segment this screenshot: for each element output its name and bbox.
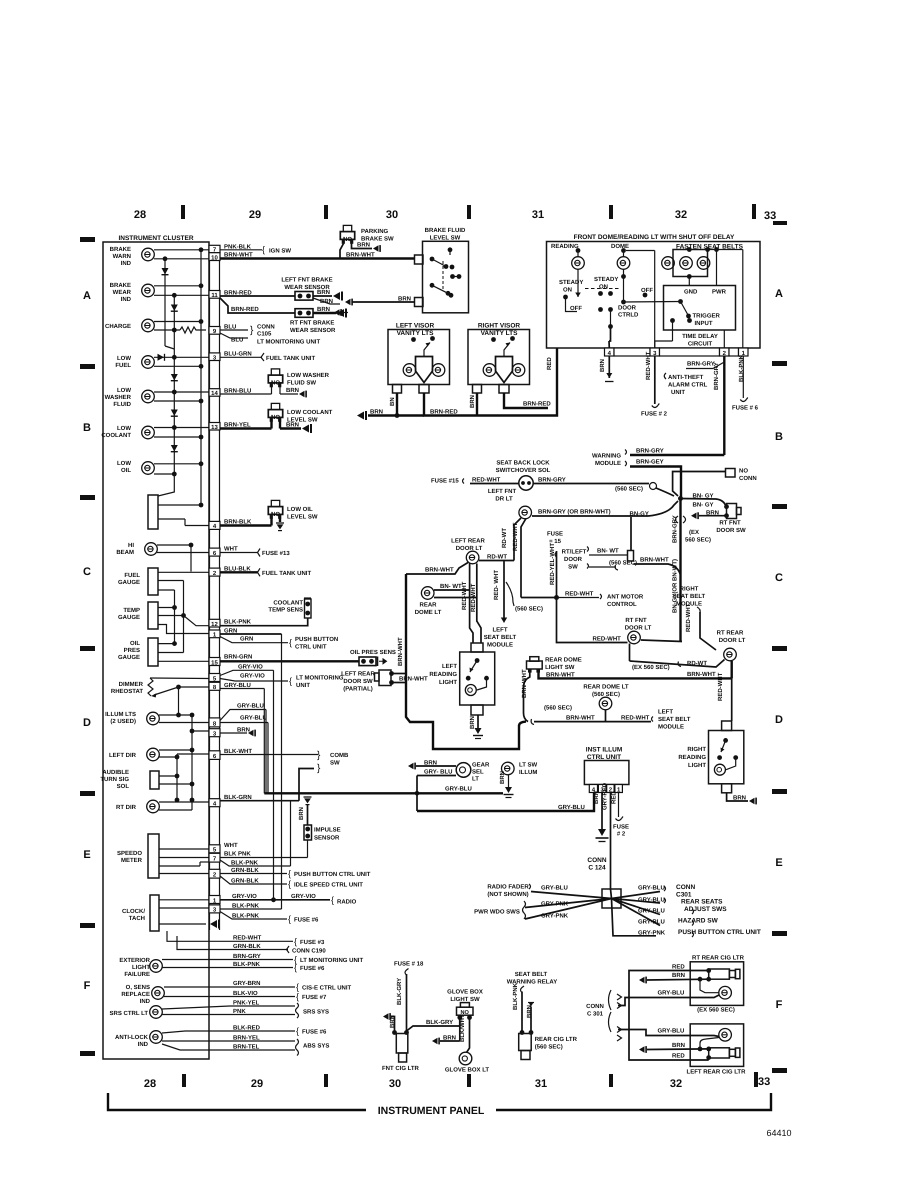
svg-text:PUSH BUTTON CTRL UNIT: PUSH BUTTON CTRL UNIT <box>678 929 761 936</box>
svg-text:29: 29 <box>249 209 261 221</box>
svg-text:(NOT SHOWN): (NOT SHOWN) <box>487 891 528 898</box>
svg-text:BLK-RED: BLK-RED <box>233 1024 261 1031</box>
svg-text:ANTI-THEFT: ANTI-THEFT <box>668 374 704 381</box>
BRN-GRY vertical down <box>679 499 681 642</box>
svg-text:PRES: PRES <box>124 647 140 654</box>
svg-text:REPLACE: REPLACE <box>121 991 150 998</box>
ant motor control <box>600 594 602 599</box>
svg-text:UNIT: UNIT <box>296 682 310 689</box>
svg-text:SEAT BELT: SEAT BELT <box>658 716 691 723</box>
cig lighter symbol <box>709 969 730 979</box>
svg-text:FUSE #6: FUSE #6 <box>300 965 325 972</box>
svg-text:C: C <box>775 572 783 584</box>
switch dots and lines <box>577 269 579 297</box>
svg-text:BRN: BRN <box>469 395 476 408</box>
svg-text:SPEEDO: SPEEDO <box>117 850 142 857</box>
svg-text:RT FNT: RT FNT <box>625 617 647 624</box>
svg-text:FUSE #6: FUSE #6 <box>302 1029 327 1036</box>
svg-text:GRN-BLK: GRN-BLK <box>233 943 261 950</box>
svg-text:(PARTIAL): (PARTIAL) <box>343 686 373 693</box>
pin 8 lower <box>209 718 220 727</box>
svg-text:BRN-TEL: BRN-TEL <box>233 1043 260 1050</box>
svg-text:{: { <box>288 869 291 879</box>
svg-text:RED: RED <box>672 964 685 971</box>
svg-text:BRN-GRN: BRN-GRN <box>224 654 252 661</box>
svg-text:PNK: PNK <box>233 1008 246 1015</box>
svg-text:GRY-BLU: GRY-BLU <box>541 885 568 892</box>
svg-text:SRS CTRL LT: SRS CTRL LT <box>110 1010 149 1017</box>
svg-text:RADIO FADER: RADIO FADER <box>487 884 529 891</box>
svg-text:IGN SW: IGN SW <box>269 248 291 255</box>
rear dome light sw <box>530 657 539 662</box>
svg-text:GRY-BLU: GRY-BLU <box>240 715 267 722</box>
svg-text:DOOR SW: DOOR SW <box>343 678 373 685</box>
long left vertical brn-wht <box>406 574 526 749</box>
svg-text:RED: RED <box>672 1053 685 1060</box>
svg-text:IDLE SPEED CTRL UNIT: IDLE SPEED CTRL UNIT <box>294 882 363 889</box>
svg-text:{: { <box>288 914 291 924</box>
svg-text:LEFT: LEFT <box>493 627 508 634</box>
svg-text:ILLUM: ILLUM <box>519 769 537 776</box>
svg-text:RIGHT VISOR: RIGHT VISOR <box>478 323 521 330</box>
pin 2 lower <box>209 869 220 878</box>
pin 6 lower <box>209 751 220 760</box>
svg-text:SEAT BACK LOCK: SEAT BACK LOCK <box>496 460 550 467</box>
svg-text:{: { <box>331 895 334 905</box>
lamp SRS CTRL LT <box>150 1006 163 1019</box>
svg-text:SEAT BELT: SEAT BELT <box>515 971 548 978</box>
svg-text:METER: METER <box>121 857 143 864</box>
svg-text:CTRL UNIT: CTRL UNIT <box>295 644 327 651</box>
svg-text:E: E <box>775 857 782 869</box>
gauge TEMP GAUGE <box>148 602 158 629</box>
svg-text:BRN-GRY: BRN-GRY <box>538 477 566 484</box>
svg-text:GRY-BLU: GRY-BLU <box>638 908 665 915</box>
svg-text:SEAT BELT: SEAT BELT <box>484 634 517 641</box>
svg-text:GRY-VIO: GRY-VIO <box>240 673 265 680</box>
cluster outline <box>103 242 209 1059</box>
RT FNT BRAKE WEAR SENSOR <box>295 309 313 318</box>
svg-text:CONN: CONN <box>257 324 275 331</box>
svg-text:DOME: DOME <box>611 243 629 250</box>
svg-text:RD-WT: RD-WT <box>487 554 507 561</box>
x crossing wires <box>531 892 660 926</box>
svg-text:31: 31 <box>535 1078 547 1090</box>
svg-text:LEFT REAR: LEFT REAR <box>451 538 485 545</box>
svg-text:WHT: WHT <box>224 842 238 849</box>
svg-text:REAR CIG LTR: REAR CIG LTR <box>535 1036 578 1043</box>
svg-text:BN: BN <box>389 397 396 406</box>
lamp ANTI-LOCK IND <box>150 1031 163 1044</box>
svg-text:READING: READING <box>678 754 706 761</box>
svg-text:RT/LEFT: RT/LEFT <box>562 549 587 556</box>
svg-text:RED: RED <box>611 791 618 804</box>
svg-text:LEFT VISOR: LEFT VISOR <box>396 323 435 330</box>
svg-text:WARN: WARN <box>113 253 131 260</box>
red-wht wire into it <box>630 660 725 668</box>
svg-text:11: 11 <box>211 292 218 299</box>
svg-text:LEFT REAR CIG LTR: LEFT REAR CIG LTR <box>687 1069 747 1076</box>
pin 6 <box>209 548 220 556</box>
svg-text:(560 SEC): (560 SEC) <box>609 560 637 567</box>
svg-text:LIGHT SW: LIGHT SW <box>545 664 575 671</box>
tick <box>181 205 185 219</box>
svg-text:CONTROL: CONTROL <box>607 601 637 608</box>
svg-text:B: B <box>775 431 783 443</box>
svg-text:CIS-E CTRL UNIT: CIS-E CTRL UNIT <box>302 985 352 992</box>
svg-text:LEVEL SW: LEVEL SW <box>430 235 461 242</box>
svg-text:GLOVE BOX: GLOVE BOX <box>447 989 483 996</box>
svg-text:BN- GY: BN- GY <box>693 502 714 509</box>
svg-text:BRN: BRN <box>526 1005 533 1018</box>
svg-text:RED-YEL-WHT: RED-YEL-WHT <box>549 543 556 585</box>
svg-text:BLK-PNK: BLK-PNK <box>233 961 261 968</box>
svg-text:HI: HI <box>128 542 134 549</box>
svg-text:FNT CIG LTR: FNT CIG LTR <box>382 1065 420 1072</box>
ground arrow at clock <box>210 920 220 929</box>
svg-text:(560 SEC): (560 SEC) <box>535 1044 563 1051</box>
svg-text:BRN-WHT: BRN-WHT <box>399 676 428 683</box>
bus V174 with diodes <box>173 295 175 474</box>
svg-text:BRN-GRY (OR BRN-WHT): BRN-GRY (OR BRN-WHT) <box>538 509 611 516</box>
gauge FUEL GAUGE <box>148 568 158 595</box>
svg-text:BRN-GRY: BRN-GRY <box>687 361 715 368</box>
svg-text:TACH: TACH <box>129 915 145 922</box>
svg-text:SOL: SOL <box>117 783 130 790</box>
svg-text:BRN: BRN <box>499 771 506 784</box>
svg-text:CONN C190: CONN C190 <box>292 948 326 955</box>
svg-text:CONN: CONN <box>587 857 606 864</box>
resistor charge <box>180 327 206 333</box>
svg-text:RT REAR: RT REAR <box>717 630 744 637</box>
svg-text:DOOR: DOOR <box>618 305 637 312</box>
lamp LOW OIL <box>142 462 155 475</box>
svg-text:12: 12 <box>211 621 218 628</box>
right top corner dash <box>773 221 787 225</box>
svg-text:UNIT: UNIT <box>671 389 685 396</box>
svg-text:GEAR: GEAR <box>472 762 490 769</box>
pin 3 lower <box>209 729 220 737</box>
svg-text:WASHER: WASHER <box>105 394 132 401</box>
svg-text:WARNING: WARNING <box>592 453 621 460</box>
svg-text:BRN: BRN <box>593 791 600 804</box>
left rear cig ltr box <box>690 1024 743 1067</box>
svg-text:RED-WHT: RED-WHT <box>593 636 622 643</box>
LOW COOLANT LEVEL SW <box>268 403 282 421</box>
svg-text:BLK-PNK: BLK-PNK <box>738 354 745 382</box>
svg-text:RIGHT: RIGHT <box>680 586 699 593</box>
pin 9 <box>209 327 220 335</box>
rt rear door lt feeds down <box>731 678 733 721</box>
svg-text:OFF: OFF <box>641 287 653 294</box>
tick <box>609 205 613 219</box>
svg-text:RED: RED <box>546 357 553 370</box>
tick <box>324 205 328 219</box>
svg-text:CTRLD: CTRLD <box>618 312 639 319</box>
svg-text:GRY-VIO: GRY-VIO <box>291 893 316 900</box>
svg-text:(EX 560 SEC): (EX 560 SEC) <box>697 1007 735 1014</box>
svg-text:ABS SYS: ABS SYS <box>303 1043 329 1050</box>
svg-text:D: D <box>775 714 783 726</box>
svg-text:LEFT DIR: LEFT DIR <box>109 752 137 759</box>
svg-text:BRN-GRY: BRN-GRY <box>672 515 679 543</box>
tick <box>324 1074 328 1087</box>
svg-text:SW: SW <box>330 760 340 767</box>
svg-text:WEAR SENSOR: WEAR SENSOR <box>290 327 336 334</box>
tick <box>754 1072 758 1087</box>
svg-text:RED-WHT: RED-WHT <box>233 935 262 942</box>
connector arrow lower left <box>334 309 342 316</box>
gauge OIL PRES GAUGE <box>148 638 158 666</box>
svg-text:HAZARD SW: HAZARD SW <box>678 918 719 925</box>
svg-text:RT REAR CIG LTR: RT REAR CIG LTR <box>692 955 745 962</box>
lt sw illum <box>502 762 515 775</box>
pin 14 <box>209 389 220 397</box>
fnt cig ltr body <box>396 1034 408 1054</box>
svg-text:BRN: BRN <box>317 306 330 313</box>
svg-text:FAILURE: FAILURE <box>124 971 150 978</box>
lamp HI BEAM <box>145 543 158 556</box>
svg-text:RED-WHT: RED-WHT <box>621 715 650 722</box>
svg-text:{: { <box>296 1026 299 1036</box>
no conn <box>726 469 736 478</box>
svg-text:{: { <box>296 982 299 992</box>
rear cig ltr <box>519 1034 532 1051</box>
pin 3 <box>209 353 220 361</box>
pin 4 <box>209 521 220 529</box>
svg-text:RT FNT BRAKE: RT FNT BRAKE <box>290 320 334 327</box>
pin 2 <box>209 568 220 576</box>
svg-text:FUEL: FUEL <box>124 572 140 579</box>
svg-text:{: { <box>262 245 265 255</box>
svg-text:GRY-PNK: GRY-PNK <box>638 930 666 937</box>
svg-text:DOOR LT: DOOR LT <box>719 637 746 644</box>
lamp RT DIR <box>147 800 160 813</box>
svg-text:PUSH BUTTON CTRL UNIT: PUSH BUTTON CTRL UNIT <box>294 871 371 878</box>
svg-text:GRY-BLU: GRY-BLU <box>638 919 665 926</box>
svg-text:FUEL: FUEL <box>115 362 131 369</box>
pin 1 lower <box>209 896 220 904</box>
svg-text:F: F <box>776 999 783 1011</box>
svg-text:LEFT: LEFT <box>658 709 673 716</box>
svg-text:REAR: REAR <box>419 602 437 609</box>
svg-text:SWITCHOVER SOL: SWITCHOVER SOL <box>496 467 551 474</box>
svg-text:BRN: BRN <box>320 298 333 305</box>
svg-text:GLOVE BOX LT: GLOVE BOX LT <box>445 1067 490 1074</box>
left seat belt module (row C) <box>503 561 505 619</box>
dimmer feed to pin 5 <box>150 677 209 680</box>
svg-text:32: 32 <box>675 209 687 221</box>
svg-text:C301: C301 <box>676 892 692 899</box>
svg-text:RED-WHT: RED-WHT <box>472 477 501 484</box>
gear sel lt <box>408 763 416 770</box>
svg-text:GRY-BLU: GRY-BLU <box>445 786 472 793</box>
svg-text:PNK-YEL: PNK-YEL <box>233 999 260 1006</box>
svg-text:LIGHT: LIGHT <box>688 762 706 769</box>
diode right on low fuel wire <box>154 356 209 358</box>
svg-text:GRY-RED: GRY-RED <box>602 782 609 810</box>
svg-text:LIGHT: LIGHT <box>132 964 150 971</box>
gauge CLOCK/TACH <box>150 895 159 931</box>
svg-text:STEADY: STEADY <box>559 279 583 286</box>
svg-text:LOW OIL: LOW OIL <box>287 506 313 513</box>
svg-text:GRY-VIO: GRY-VIO <box>238 664 263 671</box>
svg-text:WEAR: WEAR <box>113 289 132 296</box>
svg-text:GRY-PNK: GRY-PNK <box>541 901 569 908</box>
svg-text:C105: C105 <box>257 331 272 338</box>
svg-text:GRY- BLU: GRY- BLU <box>424 769 452 776</box>
svg-text:33: 33 <box>764 210 776 222</box>
svg-text:BRN: BRN <box>317 289 330 296</box>
internal contacts <box>430 257 435 262</box>
svg-text:RADIO: RADIO <box>337 899 357 906</box>
svg-text:REAR DOME LT: REAR DOME LT <box>583 684 629 691</box>
pin 10 <box>209 253 220 261</box>
bundle verticals <box>263 689 265 794</box>
svg-text:GRN: GRN <box>240 636 253 643</box>
connector rail <box>209 245 211 930</box>
svg-text:LEVEL SW: LEVEL SW <box>287 417 318 424</box>
svg-text:BEAM: BEAM <box>116 549 134 556</box>
lamp LEFT DIR <box>147 748 160 761</box>
wires inside box bottom <box>608 341 610 348</box>
svg-text:REAR DOME: REAR DOME <box>545 657 582 664</box>
svg-text:MODULE: MODULE <box>595 460 621 467</box>
pin 8 <box>209 682 220 690</box>
lamp ILLUM LTS (2 USED) <box>147 712 160 725</box>
svg-text:29: 29 <box>251 1078 263 1090</box>
svg-text:DOOR: DOOR <box>564 556 583 563</box>
svg-text:BN- WT: BN- WT <box>597 548 619 555</box>
pin strip under box <box>605 348 749 356</box>
svg-text:IND: IND <box>138 1041 149 1048</box>
svg-text:13: 13 <box>211 424 218 431</box>
bus V201 <box>200 250 202 505</box>
svg-text:ON: ON <box>563 287 572 294</box>
svg-text:BLU-GRN: BLU-GRN <box>224 351 252 358</box>
svg-text:BRN: BRN <box>672 972 685 979</box>
svg-text:SEAT BELT: SEAT BELT <box>673 593 706 600</box>
svg-text:B: B <box>83 422 91 434</box>
svg-text:{: { <box>294 963 297 973</box>
dashed steady-on line <box>585 288 620 290</box>
svg-text:LOW: LOW <box>117 460 131 467</box>
svg-text:PUSH BUTTON: PUSH BUTTON <box>295 636 338 643</box>
svg-text:LT MONITORING UNIT: LT MONITORING UNIT <box>257 339 320 346</box>
svg-text:IND: IND <box>121 260 132 267</box>
svg-text:FUSE: FUSE <box>547 531 563 538</box>
svg-text:RED-WHT: RED-WHT <box>461 581 468 610</box>
svg-text:(560 SEC): (560 SEC) <box>544 705 572 712</box>
svg-text:C 124: C 124 <box>588 865 606 872</box>
svg-text:INSTRUMENT CLUSTER: INSTRUMENT CLUSTER <box>118 235 193 242</box>
svg-text:IND: IND <box>121 296 132 303</box>
svg-text:LOW: LOW <box>117 355 131 362</box>
svg-text:LT MONITORING: LT MONITORING <box>296 675 344 682</box>
svg-text:READING: READING <box>551 243 579 250</box>
svg-text:DOOR LT: DOOR LT <box>456 545 483 552</box>
lamp circles <box>403 364 416 377</box>
svg-text:FUSE # 6: FUSE # 6 <box>732 405 759 412</box>
svg-text:OIL: OIL <box>130 640 140 647</box>
svg-text:COOLANT: COOLANT <box>101 432 131 439</box>
svg-text:LEFT FNT: LEFT FNT <box>488 488 517 495</box>
left reading light box <box>460 652 495 705</box>
svg-text:TURN SIG: TURN SIG <box>100 776 129 783</box>
svg-text:33: 33 <box>758 1076 770 1088</box>
svg-text:A: A <box>775 288 783 300</box>
svg-text:SENSOR: SENSOR <box>314 835 340 842</box>
pin 7 lower <box>209 853 220 862</box>
svg-text:BRN-GEY: BRN-GEY <box>636 459 664 466</box>
svg-text:SEL: SEL <box>472 769 484 776</box>
seat belt lamps box <box>673 250 708 277</box>
svg-text:BLK-PNK: BLK-PNK <box>224 619 252 626</box>
svg-text:STEADY: STEADY <box>594 276 618 283</box>
svg-text:IMPULSE: IMPULSE <box>314 827 341 834</box>
tick <box>182 1074 186 1087</box>
time delay circuit box <box>664 286 736 331</box>
bottom bracket with INSTRUMENT PANEL label <box>108 1093 366 1110</box>
svg-text:EXTERIOR: EXTERIOR <box>119 957 150 964</box>
svg-text:PWR WDO SWS: PWR WDO SWS <box>474 909 520 916</box>
svg-text:GRN-BLK: GRN-BLK <box>231 877 259 884</box>
tick <box>467 205 471 219</box>
svg-text:FRONT DOME/READING LT WITH SHU: FRONT DOME/READING LT WITH SHUT OFF DELA… <box>574 234 735 241</box>
svg-text:FUSE #7: FUSE #7 <box>302 994 327 1001</box>
svg-text:BRN-WHT: BRN-WHT <box>521 669 528 698</box>
svg-text:BLK-WHT: BLK-WHT <box>224 748 252 755</box>
svg-text:DIMMER: DIMMER <box>119 681 144 688</box>
vertical routing wires gauges to pins <box>183 581 185 653</box>
svg-text:DOOR LT: DOOR LT <box>625 625 652 632</box>
gauge SPEEDO METER <box>148 834 159 878</box>
bus V165 with diode <box>164 259 166 346</box>
internal drop wires <box>610 310 612 327</box>
svg-text:RED- WHT: RED- WHT <box>493 570 500 600</box>
svg-text:INPUT: INPUT <box>695 320 713 327</box>
pin 1 <box>209 630 220 638</box>
svg-text:# 2: # 2 <box>617 831 626 838</box>
svg-text:BLK-GRY: BLK-GRY <box>396 978 403 1005</box>
svg-text:CONN: CONN <box>586 1003 604 1010</box>
svg-text:BRN: BRN <box>286 387 299 394</box>
svg-text:GRY-BLU: GRY-BLU <box>638 885 665 892</box>
svg-text:BRN-WHT: BRN-WHT <box>687 671 716 678</box>
bottom tabs <box>393 385 402 394</box>
pin 7 <box>209 245 220 252</box>
svg-text:LOW WASHER: LOW WASHER <box>287 372 330 379</box>
svg-text:BN- WT: BN- WT <box>440 583 462 590</box>
svg-text:VANITY LTS: VANITY LTS <box>481 330 519 337</box>
svg-text:FUSE #6: FUSE #6 <box>294 917 319 924</box>
dome lamp <box>617 257 630 270</box>
svg-text:(560 SEC): (560 SEC) <box>515 606 543 613</box>
svg-text:COMB: COMB <box>330 752 349 759</box>
svg-text:REAR SEATS: REAR SEATS <box>681 899 723 906</box>
rear dome lt <box>421 587 434 600</box>
svg-text:RED-WHT: RED-WHT <box>717 672 724 701</box>
svg-text:LOW: LOW <box>117 425 131 432</box>
svg-text:DOOR SW: DOOR SW <box>716 527 746 534</box>
svg-text:CLOCK/: CLOCK/ <box>122 908 145 915</box>
svg-text:(560 SEC): (560 SEC) <box>615 486 643 493</box>
svg-text:BRAKE SW: BRAKE SW <box>361 236 394 243</box>
svg-text:(EX: (EX <box>689 529 699 536</box>
pin 3 bottom <box>209 905 220 913</box>
svg-text:{: { <box>289 638 292 648</box>
svg-text:BRN-GRY: BRN-GRY <box>233 953 261 960</box>
